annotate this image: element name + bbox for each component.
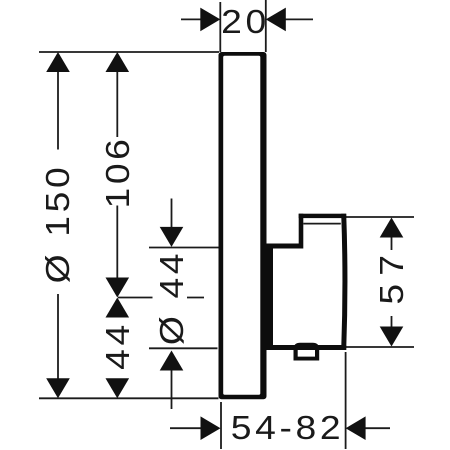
- svg-text:Ø 150: Ø 150: [40, 164, 77, 284]
- svg-text:54-82: 54-82: [231, 410, 344, 447]
- svg-text:57: 57: [374, 247, 411, 305]
- svg-text:20: 20: [221, 4, 270, 41]
- svg-text:44: 44: [100, 321, 137, 370]
- svg-text:106: 106: [100, 135, 137, 208]
- svg-text:Ø 44: Ø 44: [154, 250, 191, 345]
